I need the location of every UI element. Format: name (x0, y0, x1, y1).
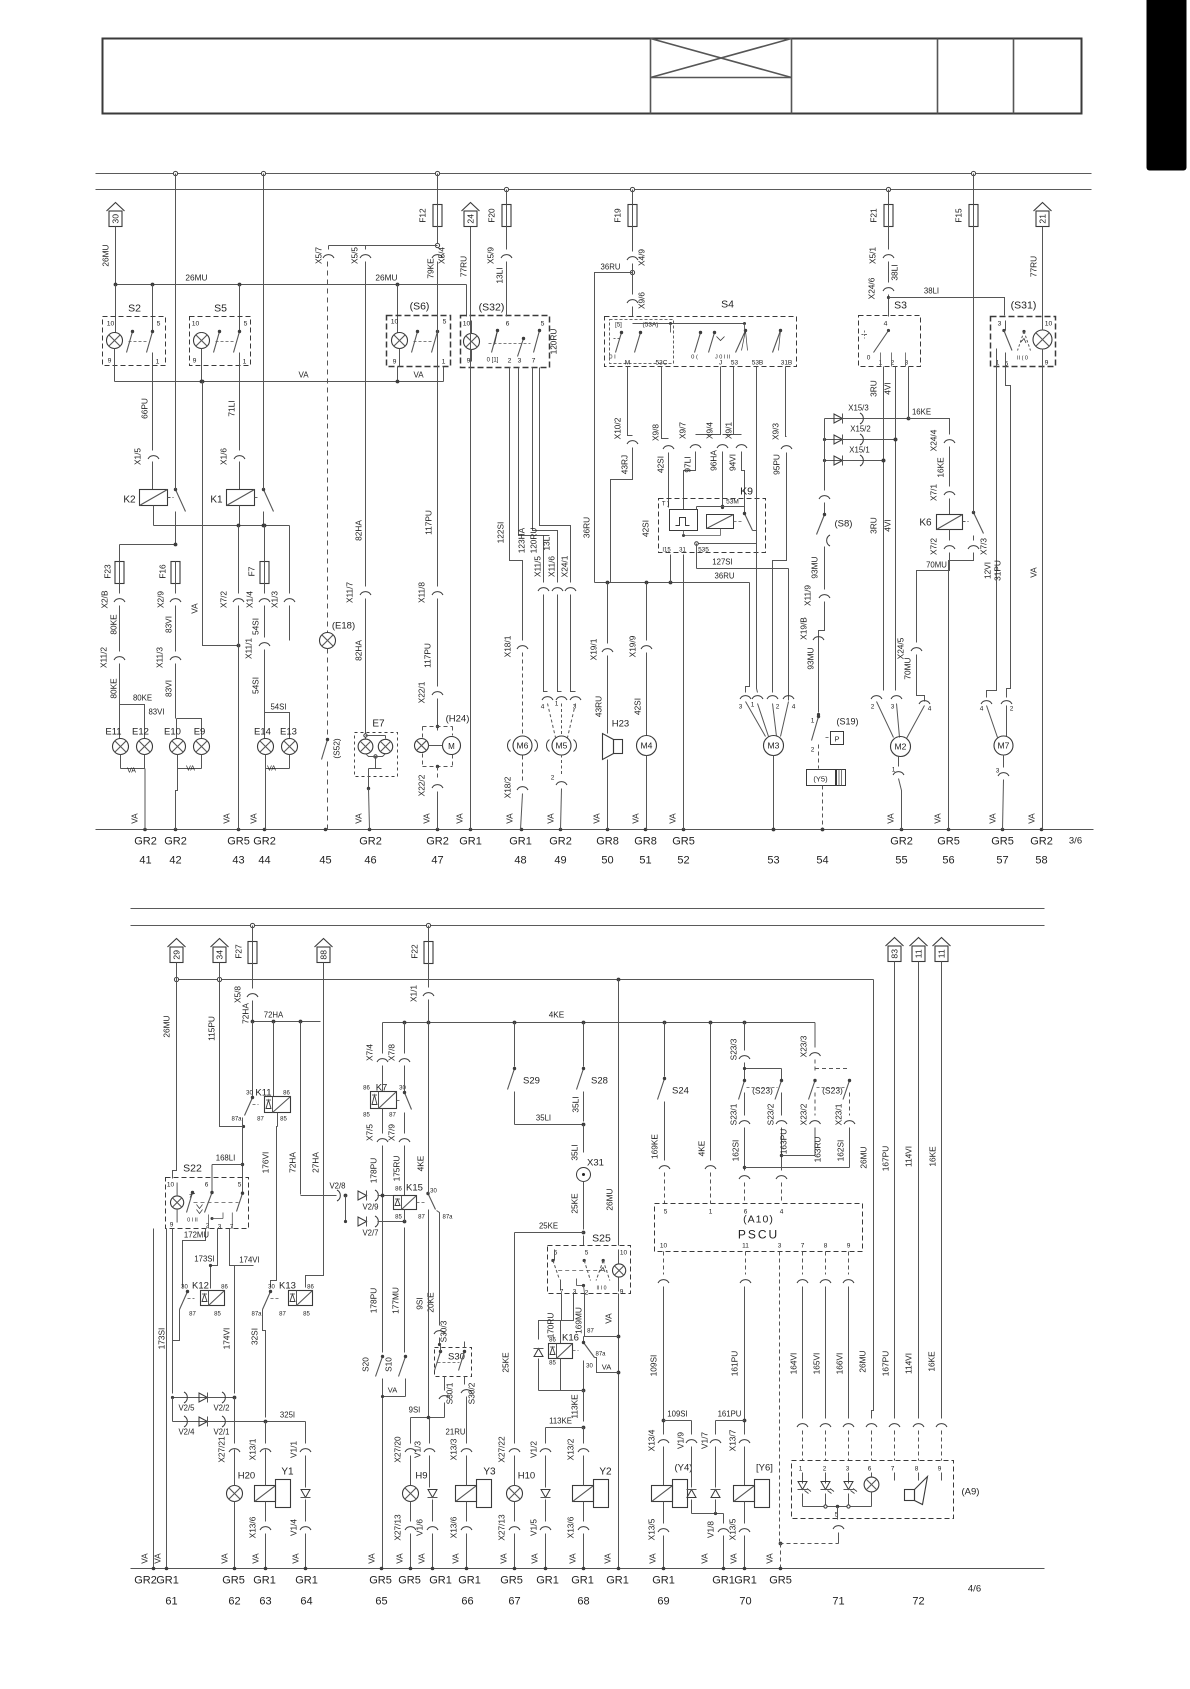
svg-text:GR2: GR2 (890, 836, 913, 848)
wire GR1 arrow 24 drop (455, 227, 471, 830)
arrow 29 (168, 939, 186, 980)
valve [Y6] (734, 1463, 773, 1524)
svg-text:S25: S25 (592, 1233, 611, 1245)
wire X7/5 below K7 (365, 1109, 389, 1353)
svg-text:80KE: 80KE (109, 678, 119, 699)
svg-text:1: 1 (799, 1466, 803, 1473)
svg-text:4VI: 4VI (883, 519, 893, 531)
svg-text:X13/3: X13/3 (449, 1438, 459, 1460)
svg-text:535: 535 (698, 547, 709, 554)
svg-text:31PU: 31PU (993, 560, 1003, 581)
svg-text:114VI: 114VI (904, 1353, 914, 1374)
wire 35LI join (515, 1114, 586, 1127)
svg-text:X19/B: X19/B (799, 617, 809, 640)
A9 internal common (803, 1493, 872, 1520)
svg-text:6: 6 (868, 1466, 872, 1473)
lamp H20 (220, 1450, 256, 1569)
arrow 30 (107, 203, 125, 227)
connector V1/3 (413, 1418, 436, 1488)
wire F12 from rail (437, 174, 439, 205)
svg-text:X5/8: X5/8 (233, 986, 243, 1003)
svg-text:X9/7: X9/7 (678, 422, 688, 439)
svg-text:GR2: GR2 (253, 836, 276, 848)
svg-text:X5/7: X5/7 (314, 247, 324, 264)
wire 27HA arrow88 to K13 (306, 963, 324, 1288)
svg-text:X11/9: X11/9 (803, 585, 813, 606)
wire S32 pin2 to M6 (496, 368, 523, 641)
svg-text:[Y6]: [Y6] (756, 1463, 773, 1474)
arrow 21 (1034, 203, 1052, 227)
svg-text:(H24): (H24) (446, 714, 470, 725)
connector X31 (570, 1125, 604, 1230)
svg-text:38LI: 38LI (924, 287, 939, 296)
control unit (A10) PSCU (655, 1204, 863, 1252)
svg-text:54SI: 54SI (251, 677, 261, 694)
svg-text:Y2: Y2 (599, 1467, 612, 1478)
svg-text:4KE: 4KE (549, 1011, 565, 1020)
svg-text:S4: S4 (721, 299, 734, 311)
svg-text:7: 7 (891, 1466, 895, 1473)
svg-text:25KE: 25KE (501, 1352, 511, 1373)
connector X23/2 (799, 1093, 823, 1163)
switch unit S25 (548, 1233, 631, 1297)
svg-text:VA: VA (505, 813, 515, 824)
connector X1/5 (133, 448, 160, 465)
motor M3 (764, 736, 784, 832)
svg-text:V2/8: V2/8 (329, 1182, 345, 1191)
svg-text:GR5: GR5 (369, 1575, 392, 1587)
relay K6 (919, 515, 968, 530)
svg-text:66: 66 (461, 1596, 473, 1608)
wire 83VI split to E10 E9 (148, 664, 201, 739)
svg-text:X11/7: X11/7 (345, 582, 355, 603)
svg-text:M4: M4 (641, 741, 653, 751)
wire VA S31-9 (1027, 349, 1043, 830)
svg-text:K6: K6 (919, 518, 932, 529)
svg-text:VA: VA (592, 813, 602, 824)
svg-text:87a: 87a (595, 1352, 606, 1358)
fuse F12 (418, 205, 443, 227)
svg-text:63: 63 (259, 1596, 271, 1608)
wire X10/2 chain (611, 367, 639, 583)
relay K1 (210, 462, 259, 506)
svg-text:PSCU: PSCU (738, 1228, 779, 1242)
svg-text:VA: VA (153, 1553, 163, 1564)
connector V1/6 (415, 1519, 439, 1569)
svg-text:J 0 I II: J 0 I II (715, 355, 730, 361)
svg-text:X1/4: X1/4 (245, 591, 255, 608)
title block frame (103, 39, 1082, 114)
svg-text:F20: F20 (487, 208, 497, 223)
wire 16KE S3-3 (909, 367, 950, 435)
svg-text:80KE: 80KE (109, 614, 119, 635)
svg-text:X15/2: X15/2 (850, 425, 870, 434)
svg-text:0 I II: 0 I II (187, 1218, 198, 1224)
wire 82HA to E7 (354, 262, 366, 587)
svg-text:(S23): (S23) (822, 1086, 843, 1096)
svg-text:VA: VA (190, 603, 200, 614)
connector X4/9 (627, 227, 647, 267)
svg-text:27HA: 27HA (311, 1152, 321, 1173)
svg-text:S30/1: S30/1 (445, 1382, 455, 1404)
svg-text:X13/2: X13/2 (566, 1438, 576, 1460)
svg-text:GR2: GR2 (164, 836, 187, 848)
switch unit S22 (166, 1163, 249, 1231)
lamp H10 (507, 1456, 536, 1522)
valve [Y5] (807, 770, 846, 832)
relay K11 (231, 1088, 290, 1123)
svg-text:VA: VA (222, 813, 232, 824)
svg-text:70MU: 70MU (926, 561, 947, 570)
wire 71LI S5 to relay K1 (227, 353, 240, 451)
svg-text:GR5: GR5 (672, 836, 695, 848)
svg-text:GR1: GR1 (459, 836, 482, 848)
svg-text:83: 83 (890, 949, 900, 959)
svg-text:X13/5: X13/5 (647, 1518, 657, 1540)
connector X5/8 (233, 963, 259, 1024)
svg-text:X13/5: X13/5 (728, 1518, 738, 1540)
switch (S6) (387, 301, 451, 367)
wire S22 returns to 61 (140, 1229, 167, 1569)
svg-text:X31: X31 (587, 1158, 604, 1169)
svg-text:4/6: 4/6 (968, 1584, 981, 1595)
svg-text:2: 2 (823, 1466, 827, 1473)
svg-text:9: 9 (393, 359, 397, 366)
svg-text:93MU: 93MU (810, 556, 820, 578)
svg-text:43RJ: 43RJ (620, 455, 630, 474)
wire 42SI to M4 (628, 583, 653, 736)
wire 4KE horizontal (383, 1011, 816, 1025)
svg-text:53M: 53M (726, 499, 739, 506)
connector 16KE to A9 (936, 1424, 947, 1461)
svg-text:GR1: GR1 (429, 1575, 452, 1587)
svg-text:68: 68 (577, 1596, 589, 1608)
circuit numbers bottom section (134, 1575, 981, 1608)
svg-text:1: 1 (156, 359, 160, 366)
svg-text:X1/1: X1/1 (409, 985, 419, 1002)
connector 167PU to A9 (889, 1424, 900, 1461)
svg-text:S2: S2 (128, 303, 141, 315)
svg-text:4VI: 4VI (883, 382, 893, 394)
svg-text:2: 2 (811, 747, 815, 754)
svg-text:85: 85 (549, 1361, 556, 1367)
svg-text:3: 3 (218, 1224, 222, 1231)
connector S23/2 (766, 1093, 816, 1204)
svg-text:V2/9: V2/9 (362, 1203, 378, 1212)
wire to fuse F23 (120, 543, 178, 563)
svg-text:72HA: 72HA (288, 1152, 298, 1173)
svg-text:X18/1: X18/1 (503, 635, 513, 657)
diode V1/7 (711, 1490, 721, 1514)
wire 4VI S3-2 to M2 (883, 367, 898, 691)
svg-text:X11/8: X11/8 (417, 582, 427, 603)
svg-text:167PU: 167PU (881, 1351, 891, 1376)
contact K6 (972, 511, 984, 534)
svg-text:4: 4 (884, 321, 888, 328)
switch S3 (859, 300, 921, 367)
switch pair (S23) second (809, 1079, 852, 1100)
svg-text:X15/1: X15/1 (849, 446, 869, 455)
svg-text:S30/3: S30/3 (439, 1320, 449, 1342)
svg-text:11: 11 (937, 949, 947, 958)
connector X5/7 (314, 247, 335, 264)
svg-text:4: 4 (541, 704, 545, 711)
wire 96HA to K9 53M (705, 367, 734, 510)
wires into M5 (541, 595, 581, 738)
svg-text:71LI: 71LI (227, 400, 237, 416)
svg-text:5: 5 (157, 321, 161, 328)
wires S32 to M5 (517, 368, 571, 583)
svg-text:53C: 53C (656, 360, 668, 367)
connector X13/3 (449, 1438, 473, 1460)
svg-text:X22/1: X22/1 (417, 681, 427, 703)
svg-text:Y1: Y1 (281, 1467, 294, 1478)
connector X11/2 (99, 606, 126, 699)
indicator unit (A9) (792, 1461, 980, 1519)
svg-text:21RU: 21RU (446, 1428, 466, 1437)
svg-text:V2/7: V2/7 (362, 1229, 378, 1238)
diode K16 (534, 1294, 562, 1391)
svg-text:VA: VA (530, 1553, 540, 1564)
connector X22/2 (417, 774, 444, 829)
svg-text:77RU: 77RU (459, 256, 469, 277)
wire 173SI S22 pin9 down (157, 1229, 173, 1394)
connector X23/1 (834, 1093, 856, 1168)
svg-text:VA: VA (700, 1553, 710, 1564)
wire E14 E13 return to 44 (249, 755, 290, 830)
svg-text:10: 10 (660, 1243, 668, 1250)
svg-text:F16: F16 (158, 564, 168, 579)
svg-text:GR1: GR1 (156, 1575, 179, 1587)
svg-text:9: 9 (170, 1222, 174, 1229)
connector V1/7 (700, 1421, 722, 1488)
connector X27/13 H10 (497, 1514, 521, 1569)
svg-text:9: 9 (938, 1466, 942, 1473)
connector X1/1 (409, 963, 435, 1023)
wire H20 drop (234, 1398, 236, 1444)
svg-text:167PU: 167PU (881, 1146, 891, 1171)
connector X18/2 (503, 756, 529, 830)
svg-text:20KE: 20KE (426, 1292, 436, 1313)
svg-text:30: 30 (246, 1091, 253, 1097)
svg-text:8: 8 (824, 1243, 828, 1250)
connector V1/1 (289, 1422, 312, 1488)
svg-text:(A10): (A10) (743, 1214, 774, 1226)
svg-text:V2/1: V2/1 (213, 1428, 229, 1437)
lamp unit E7 (354, 719, 398, 830)
diode V1 Y2 (541, 1490, 551, 1522)
svg-text:M6: M6 (517, 741, 529, 751)
connector S24 to PSCU (659, 1166, 670, 1204)
wire 70MU to M2 pin4 (896, 553, 950, 702)
svg-text:S23/3: S23/3 (729, 1038, 739, 1060)
wire 26MU right rail (858, 980, 874, 1419)
svg-text:2: 2 (776, 704, 780, 711)
connector X13/6 Y1 (248, 1516, 272, 1568)
valve (Y4) (652, 1463, 693, 1524)
svg-text:11: 11 (914, 949, 924, 958)
svg-text:GR2: GR2 (1030, 836, 1053, 848)
svg-text:1: 1 (811, 718, 815, 725)
svg-text:E7: E7 (372, 719, 385, 730)
svg-text:VA: VA (729, 1553, 739, 1564)
svg-text:X13/4: X13/4 (647, 1429, 657, 1451)
wire 117PU F12 chain (424, 262, 438, 587)
connector X9/6 (627, 264, 647, 317)
svg-text:58: 58 (1035, 855, 1047, 867)
svg-text:1: 1 (442, 359, 446, 366)
junction dots on feed rails (173, 171, 975, 191)
svg-text:0: 0 (867, 355, 871, 362)
svg-text:3: 3 (846, 1466, 850, 1473)
svg-text:X5/9: X5/9 (486, 247, 496, 264)
LED 1 in A9 (798, 1482, 812, 1494)
relay K2 (123, 462, 173, 506)
wire 174VI S22 pin7 (222, 1229, 260, 1394)
svg-text:36RU: 36RU (715, 572, 735, 581)
svg-text:30: 30 (586, 1364, 593, 1370)
connector X13/6 Y2 (566, 1516, 590, 1568)
svg-text:52: 52 (677, 855, 689, 867)
svg-text:2: 2 (585, 1290, 589, 1297)
svg-text:109SI: 109SI (667, 1410, 687, 1419)
connector X13/1 (248, 1422, 272, 1461)
connector X13/7 (728, 1429, 751, 1485)
svg-text:E11: E11 (105, 727, 121, 738)
svg-text:GR1: GR1 (652, 1575, 675, 1587)
svg-text:8: 8 (915, 1466, 919, 1473)
svg-text:94VI: 94VI (728, 454, 738, 471)
svg-text:72HA: 72HA (264, 1011, 284, 1020)
relay K7 (363, 1066, 411, 1119)
switch S30 (435, 1342, 472, 1377)
connector X5/4 (432, 247, 447, 264)
svg-text:X5/1: X5/1 (868, 247, 878, 264)
svg-text:51: 51 (639, 855, 651, 867)
svg-text:E10: E10 (164, 727, 181, 738)
switch S2 (103, 303, 166, 367)
svg-text:69: 69 (657, 1596, 669, 1608)
wire (E18) dashed drop (327, 262, 329, 633)
svg-text:26MU: 26MU (605, 1188, 615, 1210)
svg-text:X11/6: X11/6 (547, 556, 557, 577)
svg-text:VA: VA (603, 1553, 613, 1564)
svg-text:86: 86 (549, 1338, 556, 1344)
connector X2/B (100, 584, 126, 635)
connector X13/2 (566, 1428, 590, 1461)
connector X27/21 (217, 1436, 241, 1463)
svg-text:M7: M7 (998, 741, 1010, 751)
wire 4KE to K15 30 (416, 1023, 429, 1194)
wire 165VI PSCU pin8 (812, 1252, 832, 1461)
svg-text:164VI: 164VI (789, 1353, 799, 1375)
wire 79KE below F12 (426, 227, 440, 279)
svg-text:168LI: 168LI (216, 1154, 236, 1163)
diode V1 H9 (428, 1488, 438, 1522)
svg-text:GR1: GR1 (295, 1575, 318, 1587)
svg-text:10: 10 (107, 321, 115, 328)
svg-text:X11/2: X11/2 (99, 647, 109, 668)
relay K15 (394, 1183, 454, 1222)
svg-text:VA: VA (130, 813, 140, 824)
arrow 83 (881, 938, 904, 1419)
wire K11 feed 30 (252, 1022, 254, 1097)
svg-text:4: 4 (980, 706, 984, 713)
svg-text:86: 86 (283, 1091, 290, 1097)
wire vertical 42 rail (175, 174, 177, 545)
switch S5 (190, 303, 251, 367)
svg-text:87a: 87a (231, 1117, 242, 1123)
svg-text:93MU: 93MU (806, 647, 816, 669)
lamp in A9 (864, 1477, 879, 1492)
svg-text:9: 9 (847, 1243, 851, 1250)
svg-text:E9: E9 (194, 727, 206, 738)
svg-text:X11/3: X11/3 (155, 647, 165, 668)
svg-text:VA: VA (1029, 567, 1039, 578)
arrow 24 (462, 203, 480, 227)
bus line A bottom section (131, 908, 1045, 910)
svg-text:X7/4: X7/4 (365, 1044, 375, 1061)
svg-text:57: 57 (996, 855, 1008, 867)
svg-text:VA: VA (604, 1313, 614, 1324)
svg-text:X24/1: X24/1 (560, 555, 570, 577)
LED 3 in A9 (844, 1482, 858, 1494)
svg-text:177MU: 177MU (391, 1287, 401, 1314)
svg-text:3: 3 (996, 768, 1000, 775)
connector V1/5 (529, 1519, 552, 1569)
svg-text:32SI: 32SI (250, 1328, 260, 1345)
svg-text:VA: VA (886, 813, 896, 824)
svg-text:0 [1]: 0 [1] (487, 358, 499, 364)
switch S29 (508, 1023, 540, 1125)
wire 26MU horizontal (114, 273, 467, 333)
svg-text:X23/3: X23/3 (799, 1035, 809, 1057)
svg-text:(S8): (S8) (835, 519, 853, 530)
svg-text:X7/2: X7/2 (929, 538, 939, 555)
svg-text:53B: 53B (752, 360, 764, 367)
svg-text:GR5: GR5 (227, 836, 250, 848)
LED 2 in A9 (821, 1482, 835, 1494)
svg-text:3RU: 3RU (869, 517, 879, 534)
svg-text:3RU: 3RU (869, 380, 879, 397)
connector X23/3 (799, 1023, 821, 1058)
switch S24 (650, 1023, 689, 1161)
svg-text:35LI: 35LI (536, 1114, 551, 1123)
svg-text:36RU: 36RU (601, 263, 621, 272)
connector 114VI to A9 (913, 1424, 924, 1461)
svg-text:H23: H23 (612, 719, 629, 730)
svg-text:3: 3 (998, 321, 1002, 328)
svg-text:X9/4: X9/4 (705, 422, 715, 439)
switch pair (S23) (739, 1063, 784, 1100)
svg-text:87: 87 (389, 1113, 396, 1119)
svg-text:87: 87 (189, 1312, 196, 1318)
horn H23 (592, 719, 630, 830)
bus line 30 (top feed rail) (96, 173, 1092, 175)
svg-text:16KE: 16KE (928, 1146, 938, 1167)
svg-text:173SI: 173SI (194, 1255, 214, 1264)
svg-text:X13/1: X13/1 (248, 1438, 258, 1460)
svg-text:VA: VA (413, 371, 424, 380)
svg-text:VA: VA (186, 766, 195, 773)
wire to X5/7 X5/5 (329, 246, 438, 250)
connector X13/5 Y6 (728, 1518, 751, 1568)
svg-text:V1/6: V1/6 (415, 1519, 425, 1536)
svg-text:VA: VA (417, 1553, 427, 1564)
svg-text:GR1: GR1 (571, 1575, 594, 1587)
wire S25 pin5 feed (583, 1236, 585, 1246)
svg-text:X5/4: X5/4 (437, 247, 447, 264)
